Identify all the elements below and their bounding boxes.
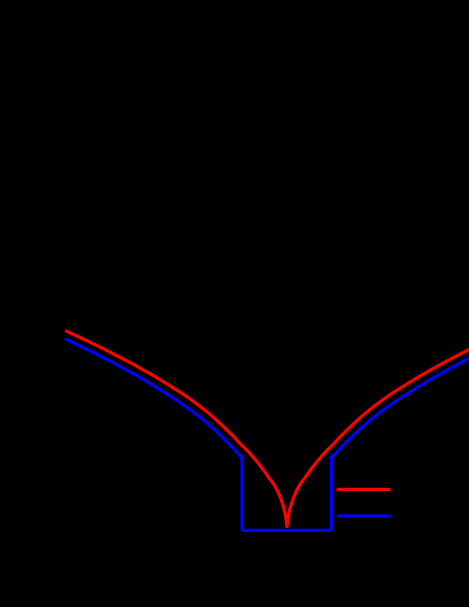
red curve (sqrt cusp, exact eigenvalue splitting) [67, 331, 469, 526]
legend red line [338, 488, 389, 491]
blue curve (capped well with flat bottom) [66, 339, 469, 530]
legend blue line [338, 514, 389, 517]
